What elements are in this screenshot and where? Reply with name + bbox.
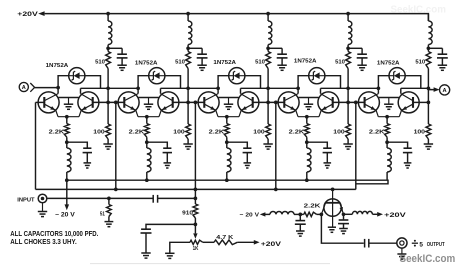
ground (emitter bus stage 2) <box>148 98 150 104</box>
junction column/trigger row stage 1 <box>106 86 110 90</box>
wire pot left to ground <box>170 242 190 253</box>
node A input circle <box>19 82 28 91</box>
node A output circle <box>440 85 450 95</box>
resistor 510 stage 3 <box>266 52 271 69</box>
wire to emitter cap stage 5 <box>387 142 408 147</box>
resistor 2.2K stage 3 <box>224 124 229 138</box>
wire bottom bar to 2.2K stage 1 <box>66 117 68 124</box>
junction trigger row / stage 4 collector <box>296 86 300 90</box>
resistor 2.2K stage 1 <box>64 124 69 138</box>
svg-text:+20V: +20V <box>17 11 39 18</box>
svg-text:1N752A: 1N752A <box>46 63 69 69</box>
wire +20V top rail <box>45 14 429 21</box>
ground (emitter bus stage 1) <box>68 98 70 104</box>
zener diode CR4 1N752A <box>309 68 325 84</box>
junction column/base row stage 3 <box>266 101 270 105</box>
choke L5b 3.3UHY emitter stage 5 <box>387 148 391 172</box>
wire to emitter cap stage 3 <box>227 142 248 147</box>
svg-text:SeekIC.com: SeekIC.com <box>400 253 456 265</box>
junction input line / 910 column <box>194 197 198 201</box>
transistor Q5 (left) stage 3 <box>198 92 219 113</box>
wire zener left lead to collector corner stage 4 <box>298 76 309 94</box>
choke L6 3.3UHY <box>270 212 294 215</box>
junction column/base row stage 5 <box>427 101 431 105</box>
junction trigger row / stage 5 collector <box>377 86 381 90</box>
ground (100 ohm stage 2) <box>183 143 192 145</box>
choke L2b 3.3UHY emitter stage 2 <box>147 148 151 172</box>
junction bottom bar / 2.2K stage 4 <box>305 115 309 119</box>
+20V arrowhead right <box>377 212 383 217</box>
svg-text:100: 100 <box>173 129 184 135</box>
junction bottom bar / 2.2K stage 1 <box>65 115 69 119</box>
svg-text:510: 510 <box>95 59 105 65</box>
OUTPUT terminal <box>397 238 407 248</box>
wire pot to 4.7K <box>203 241 214 243</box>
svg-text:100: 100 <box>253 129 264 135</box>
wire stage 5 to output A <box>401 88 434 89</box>
choke L2 3.3UHY (collector supply, stage 2) <box>187 14 189 21</box>
wire -20V bus (choke returns) <box>67 180 388 184</box>
junction column/trigger row stage 2 <box>186 86 190 90</box>
ground (100 ohm stage 4) <box>343 143 352 145</box>
wire A input to stage 1 collector <box>35 87 59 89</box>
wire to decoupling cap <box>146 224 195 228</box>
wire column below 510 stage 5 <box>427 69 429 125</box>
wire 2.2K to base <box>317 213 322 215</box>
ground (emitter bus stage 5) <box>388 98 390 104</box>
wire bottom bar to 2.2K stage 5 <box>386 117 388 124</box>
divide by 5 OUTPUT label <box>412 242 418 244</box>
zener diode CR1 1N752A <box>69 68 85 84</box>
ground (bypass cap stage 1) <box>117 64 126 66</box>
choke L3 3.3UHY (collector supply, stage 3) <box>267 14 269 21</box>
choke L3b 3.3UHY emitter stage 3 <box>227 148 231 172</box>
transistor Q10 (right) stage 5 <box>398 92 419 113</box>
svg-text:INPUT: INPUT <box>17 197 35 203</box>
wire input line <box>47 197 153 199</box>
svg-text:SeekIC.com: SeekIC.com <box>391 4 446 15</box>
resistor 510 stage 5 <box>426 52 431 69</box>
wire branch to bypass cap stage 2 <box>188 47 202 49</box>
svg-text:100: 100 <box>414 129 425 135</box>
svg-text:1N752A: 1N752A <box>377 61 400 67</box>
INPUT terminal <box>38 194 47 203</box>
junction top rail / column 1 <box>106 12 110 16</box>
wire right collector drop stage 1 <box>80 88 82 93</box>
capacitor emitter 10,000PFD stage 1 <box>83 147 91 149</box>
svg-text:2.2K: 2.2K <box>304 204 322 210</box>
choke L5 3.3UHY (collector supply, stage 5) <box>427 14 429 21</box>
wire stage 1 left base from trigger vertical <box>36 101 45 103</box>
wire bottom bar stage 2 <box>138 116 159 118</box>
arrow into potentiometer wiper <box>193 233 197 238</box>
resistor 510 stage 2 <box>186 52 191 69</box>
resistor 51 <box>108 198 110 204</box>
ground (collector cap) <box>339 228 348 230</box>
wire bottom bar to 2.2K stage 2 <box>146 117 148 124</box>
wire bottom bar stage 4 <box>298 116 319 118</box>
wire base row between stage 1 and 2 <box>93 101 125 103</box>
transistor Q8 (right) stage 4 <box>318 92 339 113</box>
junction base row / trigger vertical 3 <box>274 101 278 105</box>
ground (pot left) <box>165 252 174 254</box>
wire column below 510 stage 4 <box>347 69 349 125</box>
svg-text:− 20 V: − 20 V <box>55 212 76 219</box>
wire trigger row stage 1 to stage 2 <box>81 87 139 89</box>
wire 4.7K to +20V <box>237 241 254 243</box>
capacitor input coupling 10,000PFD <box>152 195 154 203</box>
ground (emitter cap stage 4) <box>324 162 332 164</box>
capacitor bypass 10,000PFD stage 4 <box>357 53 367 55</box>
svg-text:+20V: +20V <box>384 213 406 219</box>
junction top rail / column 3 <box>266 12 270 16</box>
junction -20V bus / choke stage 4 <box>305 178 309 182</box>
svg-text:1K: 1K <box>193 246 199 252</box>
junction bottom bar / 2.2K stage 5 <box>385 115 389 119</box>
junction trigger bus / vertical 2 <box>194 188 198 192</box>
junction trigger bus / output transistor collector <box>331 188 335 192</box>
wire to emitter cap stage 1 <box>67 142 88 147</box>
ground (51 ohm) <box>105 221 114 223</box>
resistor 910 <box>193 204 198 218</box>
choke L1b 3.3UHY emitter stage 1 <box>67 148 71 172</box>
junction -20V bus / choke stage 1 <box>65 178 69 182</box>
junction column/trigger row stage 5 <box>427 86 431 90</box>
svg-text:OUTPUT: OUTPUT <box>427 242 445 248</box>
svg-text:100: 100 <box>93 129 104 135</box>
wire base row between stage 3 and 4 <box>253 101 285 103</box>
ground (emitter bus stage 3) <box>228 98 230 104</box>
transistor Q9 (left) stage 5 <box>358 92 379 113</box>
wire to emitter cap stage 4 <box>307 142 328 147</box>
ground (INPUT terminal) <box>42 203 44 211</box>
capacitor bypass 10,000PFD stage 1 <box>117 53 127 55</box>
ground (100 ohm stage 5) <box>424 143 433 145</box>
ground (output transistor emitter) <box>328 226 336 228</box>
wire trigger row stage 3 to stage 4 <box>241 87 299 89</box>
ground (emitter cap stage 3) <box>244 162 252 164</box>
wire base row between stage 2 and 3 <box>173 101 205 103</box>
junction -20V feed node <box>298 213 302 217</box>
wire base row between stage 4 and 5 <box>333 101 365 103</box>
wire branch to bypass cap stage 1 <box>108 47 122 49</box>
capacitor collector 10,000PFD <box>343 214 345 219</box>
junction base row / trigger vertical 2 <box>194 101 198 105</box>
resistor 2.2K output <box>304 212 317 216</box>
wire zener left lead to collector corner stage 2 <box>138 76 149 94</box>
wire column below 510 stage 1 <box>107 69 109 125</box>
svg-text:A: A <box>443 88 447 94</box>
wire bottom bar to 2.2K stage 3 <box>226 117 228 124</box>
svg-text:510: 510 <box>255 59 265 65</box>
wire emitter top bar stage 4 <box>298 97 318 99</box>
wire -20V feed <box>265 213 270 215</box>
junction input/stage1 left collector <box>56 86 60 90</box>
ground (decoupling cap) <box>141 252 150 254</box>
junction top rail / column 4 <box>346 12 350 16</box>
junction bottom bar / 2.2K stage 3 <box>225 115 229 119</box>
resistor 100 stage 4 <box>346 124 351 139</box>
zener diode CR2 1N752A <box>149 68 165 84</box>
resistor 100 stage 1 <box>106 124 111 139</box>
ground (emitter bus stage 4) <box>308 98 310 104</box>
choke L7 3.3UHY <box>352 211 372 214</box>
junction trigger row / stage 2 collector <box>136 86 140 90</box>
junction column/base row stage 1 <box>106 101 110 105</box>
ground (bypass cap stage 4) <box>357 64 366 66</box>
ground (emitter cap stage 1) <box>84 162 92 164</box>
svg-text:5: 5 <box>419 241 423 248</box>
+20V arrowhead bottom <box>254 240 260 245</box>
junction base row / trigger vertical 1 <box>114 101 118 105</box>
junction column/trigger row stage 4 <box>346 86 350 90</box>
wire input line right <box>158 197 196 199</box>
wire right collector drop stage 3 <box>240 88 242 93</box>
junction column/base row stage 4 <box>346 101 350 105</box>
power rail +20V arrowhead <box>38 11 44 16</box>
wire collector to choke <box>344 213 353 215</box>
wire emitter top bar stage 5 <box>379 97 399 99</box>
junction 2.2K/choke/cap node stage 1 <box>65 140 69 144</box>
wire zener left lead to collector corner stage 1 <box>58 76 69 94</box>
junction choke/510 node stage 5 <box>427 46 431 50</box>
resistor 100 stage 3 <box>266 124 271 139</box>
-20V arrow from bus <box>66 180 68 205</box>
resistor 510 stage 1 <box>106 52 111 69</box>
ground (100 ohm stage 1) <box>103 143 112 145</box>
junction collector node / output cap <box>342 212 346 216</box>
wire column below 510 stage 3 <box>267 69 269 125</box>
junction column/trigger row stage 3 <box>266 86 270 90</box>
wire zener left lead to collector corner stage 3 <box>218 76 229 94</box>
junction 2.2K/choke/cap node stage 4 <box>305 140 309 144</box>
wire trigger vertical 4 <box>355 102 357 189</box>
svg-text:1N752A: 1N752A <box>294 59 317 65</box>
junction choke/510 node stage 2 <box>186 46 190 50</box>
svg-text:100: 100 <box>333 129 344 135</box>
capacitor bypass 10,000PFD stage 3 <box>277 53 287 55</box>
wire trigger bus lower <box>36 188 356 190</box>
wire base node to output cap <box>321 214 363 243</box>
input chevron arrow at A <box>30 83 34 92</box>
svg-text:1N752A: 1N752A <box>135 61 158 67</box>
capacitor decoupling 10,000PFD <box>141 228 151 230</box>
junction base node output transistor <box>320 213 324 217</box>
junction choke/510 node stage 1 <box>106 46 110 50</box>
resistor 100 stage 2 <box>186 124 191 139</box>
ground (100 ohm stage 3) <box>263 143 272 145</box>
junction 2.2K/choke/cap node stage 2 <box>145 140 149 144</box>
transistor Q1 (left) stage 1 <box>38 92 59 113</box>
wire bottom bar stage 5 <box>378 116 399 118</box>
svg-text:ALL CHOKES 3.3 UHY.: ALL CHOKES 3.3 UHY. <box>10 239 76 246</box>
ground (base bypass cap) <box>296 230 305 232</box>
svg-text:51: 51 <box>100 211 105 217</box>
junction trigger bus / vertical 1 <box>114 188 118 192</box>
wire emitter top bar stage 3 <box>218 97 238 99</box>
output arrowhead to A <box>434 87 440 92</box>
zener diode CR5 1N752A <box>389 68 405 84</box>
junction bottom bar / 2.2K stage 2 <box>145 115 149 119</box>
resistor 100 stage 5 <box>426 124 431 139</box>
resistor 2.2K stage 4 <box>304 124 309 138</box>
svg-text:510: 510 <box>415 59 425 65</box>
choke L4 3.3UHY (collector supply, stage 4) <box>347 14 349 21</box>
wire trigger vertical 2 <box>194 102 196 204</box>
ground (emitter cap stage 2) <box>164 162 172 164</box>
junction choke/510 node stage 3 <box>266 46 270 50</box>
resistor 2.2K stage 2 <box>144 124 149 138</box>
wire trigger row stage 2 to stage 3 <box>161 87 219 89</box>
svg-text:510: 510 <box>335 59 345 65</box>
wire zener right loop stage 3 <box>245 76 261 89</box>
wire trigger vertical 3 <box>275 102 277 189</box>
transistor Q6 (right) stage 3 <box>238 92 259 113</box>
scan artifact line bottom <box>90 263 330 265</box>
ground (bypass cap stage 5) <box>438 64 447 66</box>
junction trigger bus / vertical 3 <box>274 188 278 192</box>
svg-text:ALL CAPACITORS 10,000 PFD.: ALL CAPACITORS 10,000 PFD. <box>10 231 98 238</box>
capacitor emitter 10,000PFD stage 3 <box>243 147 251 149</box>
junction 2.2K/choke/cap node stage 5 <box>385 140 389 144</box>
wire to emitter cap stage 2 <box>147 142 168 147</box>
capacitor output coupling 10,000PFD <box>364 239 366 248</box>
transistor Q3 (left) stage 2 <box>118 92 139 113</box>
choke L1 3.3UHY (collector supply, stage 1) <box>107 14 109 21</box>
wire right collector drop stage 2 <box>160 88 162 93</box>
wire emitter top bar stage 1 <box>58 97 78 99</box>
wire branch to bypass cap stage 5 <box>428 47 442 49</box>
junction trigger row / stage 3 collector <box>216 86 220 90</box>
resistor 4.7K <box>214 240 237 245</box>
capacitor bypass 10,000PFD stage 2 <box>197 53 207 55</box>
wire bottom bar stage 3 <box>218 116 239 118</box>
wire trigger vertical from A input <box>35 102 37 189</box>
transistor Q4 (right) stage 2 <box>158 92 179 113</box>
svg-text:− 20 V: − 20 V <box>240 213 259 219</box>
wire right collector drop stage 4 <box>320 88 322 93</box>
svg-text:1N752A: 1N752A <box>213 60 236 66</box>
junction input line / 51 ohm <box>107 197 111 201</box>
zener diode CR3 1N752A <box>229 68 245 84</box>
wire zener right loop stage 2 <box>165 76 181 89</box>
transistor Q2 (right) stage 1 <box>78 92 99 113</box>
-20V arrowhead right section <box>260 212 266 216</box>
choke L4b 3.3UHY emitter stage 4 <box>307 148 311 172</box>
wire output cap to terminal <box>369 242 397 244</box>
ground (emitter cap stage 5) <box>404 162 412 164</box>
ground (OUTPUT terminal) <box>401 248 403 254</box>
junction choke/510 node stage 4 <box>346 46 350 50</box>
potentiometer 1K <box>190 240 203 244</box>
capacitor emitter 10,000PFD stage 5 <box>404 147 412 149</box>
junction -20V bus / choke stage 3 <box>225 178 229 182</box>
svg-text:A: A <box>22 85 26 91</box>
svg-text:4.7 K: 4.7 K <box>216 235 233 241</box>
resistor 2.2K stage 5 <box>385 124 390 138</box>
capacitor bypass 10,000PFD stage 5 <box>438 53 448 55</box>
capacitor emitter 10,000PFD stage 4 <box>323 147 331 149</box>
junction column/base row stage 2 <box>186 101 190 105</box>
ground (bypass cap stage 2) <box>197 64 206 66</box>
wire bottom bar to 2.2K stage 4 <box>306 117 308 124</box>
junction top rail / column 2 <box>186 12 190 16</box>
wire trigger row stage 4 to stage 5 <box>321 87 379 89</box>
resistor 510 stage 4 <box>346 52 351 69</box>
junction -20V bus / choke stage 2 <box>145 178 149 182</box>
svg-text:910: 910 <box>182 210 193 216</box>
transistor Q7 (left) stage 4 <box>278 92 299 113</box>
wire stage 5 right base to column <box>413 101 428 103</box>
wire bottom bar stage 1 <box>58 116 79 118</box>
capacitor emitter 10,000PFD stage 2 <box>163 147 171 149</box>
wire zener right loop stage 5 <box>405 76 421 89</box>
wire column below 510 stage 2 <box>187 69 189 125</box>
wire zener left lead to collector corner stage 5 <box>378 76 389 94</box>
svg-text:+20V: +20V <box>261 241 282 248</box>
junction 2.2K/choke/cap node stage 3 <box>225 140 229 144</box>
wire emitter top bar stage 2 <box>138 97 158 99</box>
junction 910 / cap branch <box>194 223 198 227</box>
svg-text:510: 510 <box>175 59 185 65</box>
capacitor base bypass 10,000PFD <box>299 214 301 220</box>
wire right collector drop stage 5 <box>400 88 402 93</box>
junction base row / trigger vertical 4 <box>354 101 358 105</box>
transistor Q11 output <box>324 199 341 216</box>
wire branch to bypass cap stage 4 <box>348 47 362 49</box>
wire zener right loop stage 1 <box>85 76 101 89</box>
wire zener right loop stage 4 <box>325 76 341 89</box>
wire trigger vertical 1 <box>115 102 117 189</box>
ground (bypass cap stage 3) <box>277 64 286 66</box>
wire branch to bypass cap stage 3 <box>268 47 282 49</box>
